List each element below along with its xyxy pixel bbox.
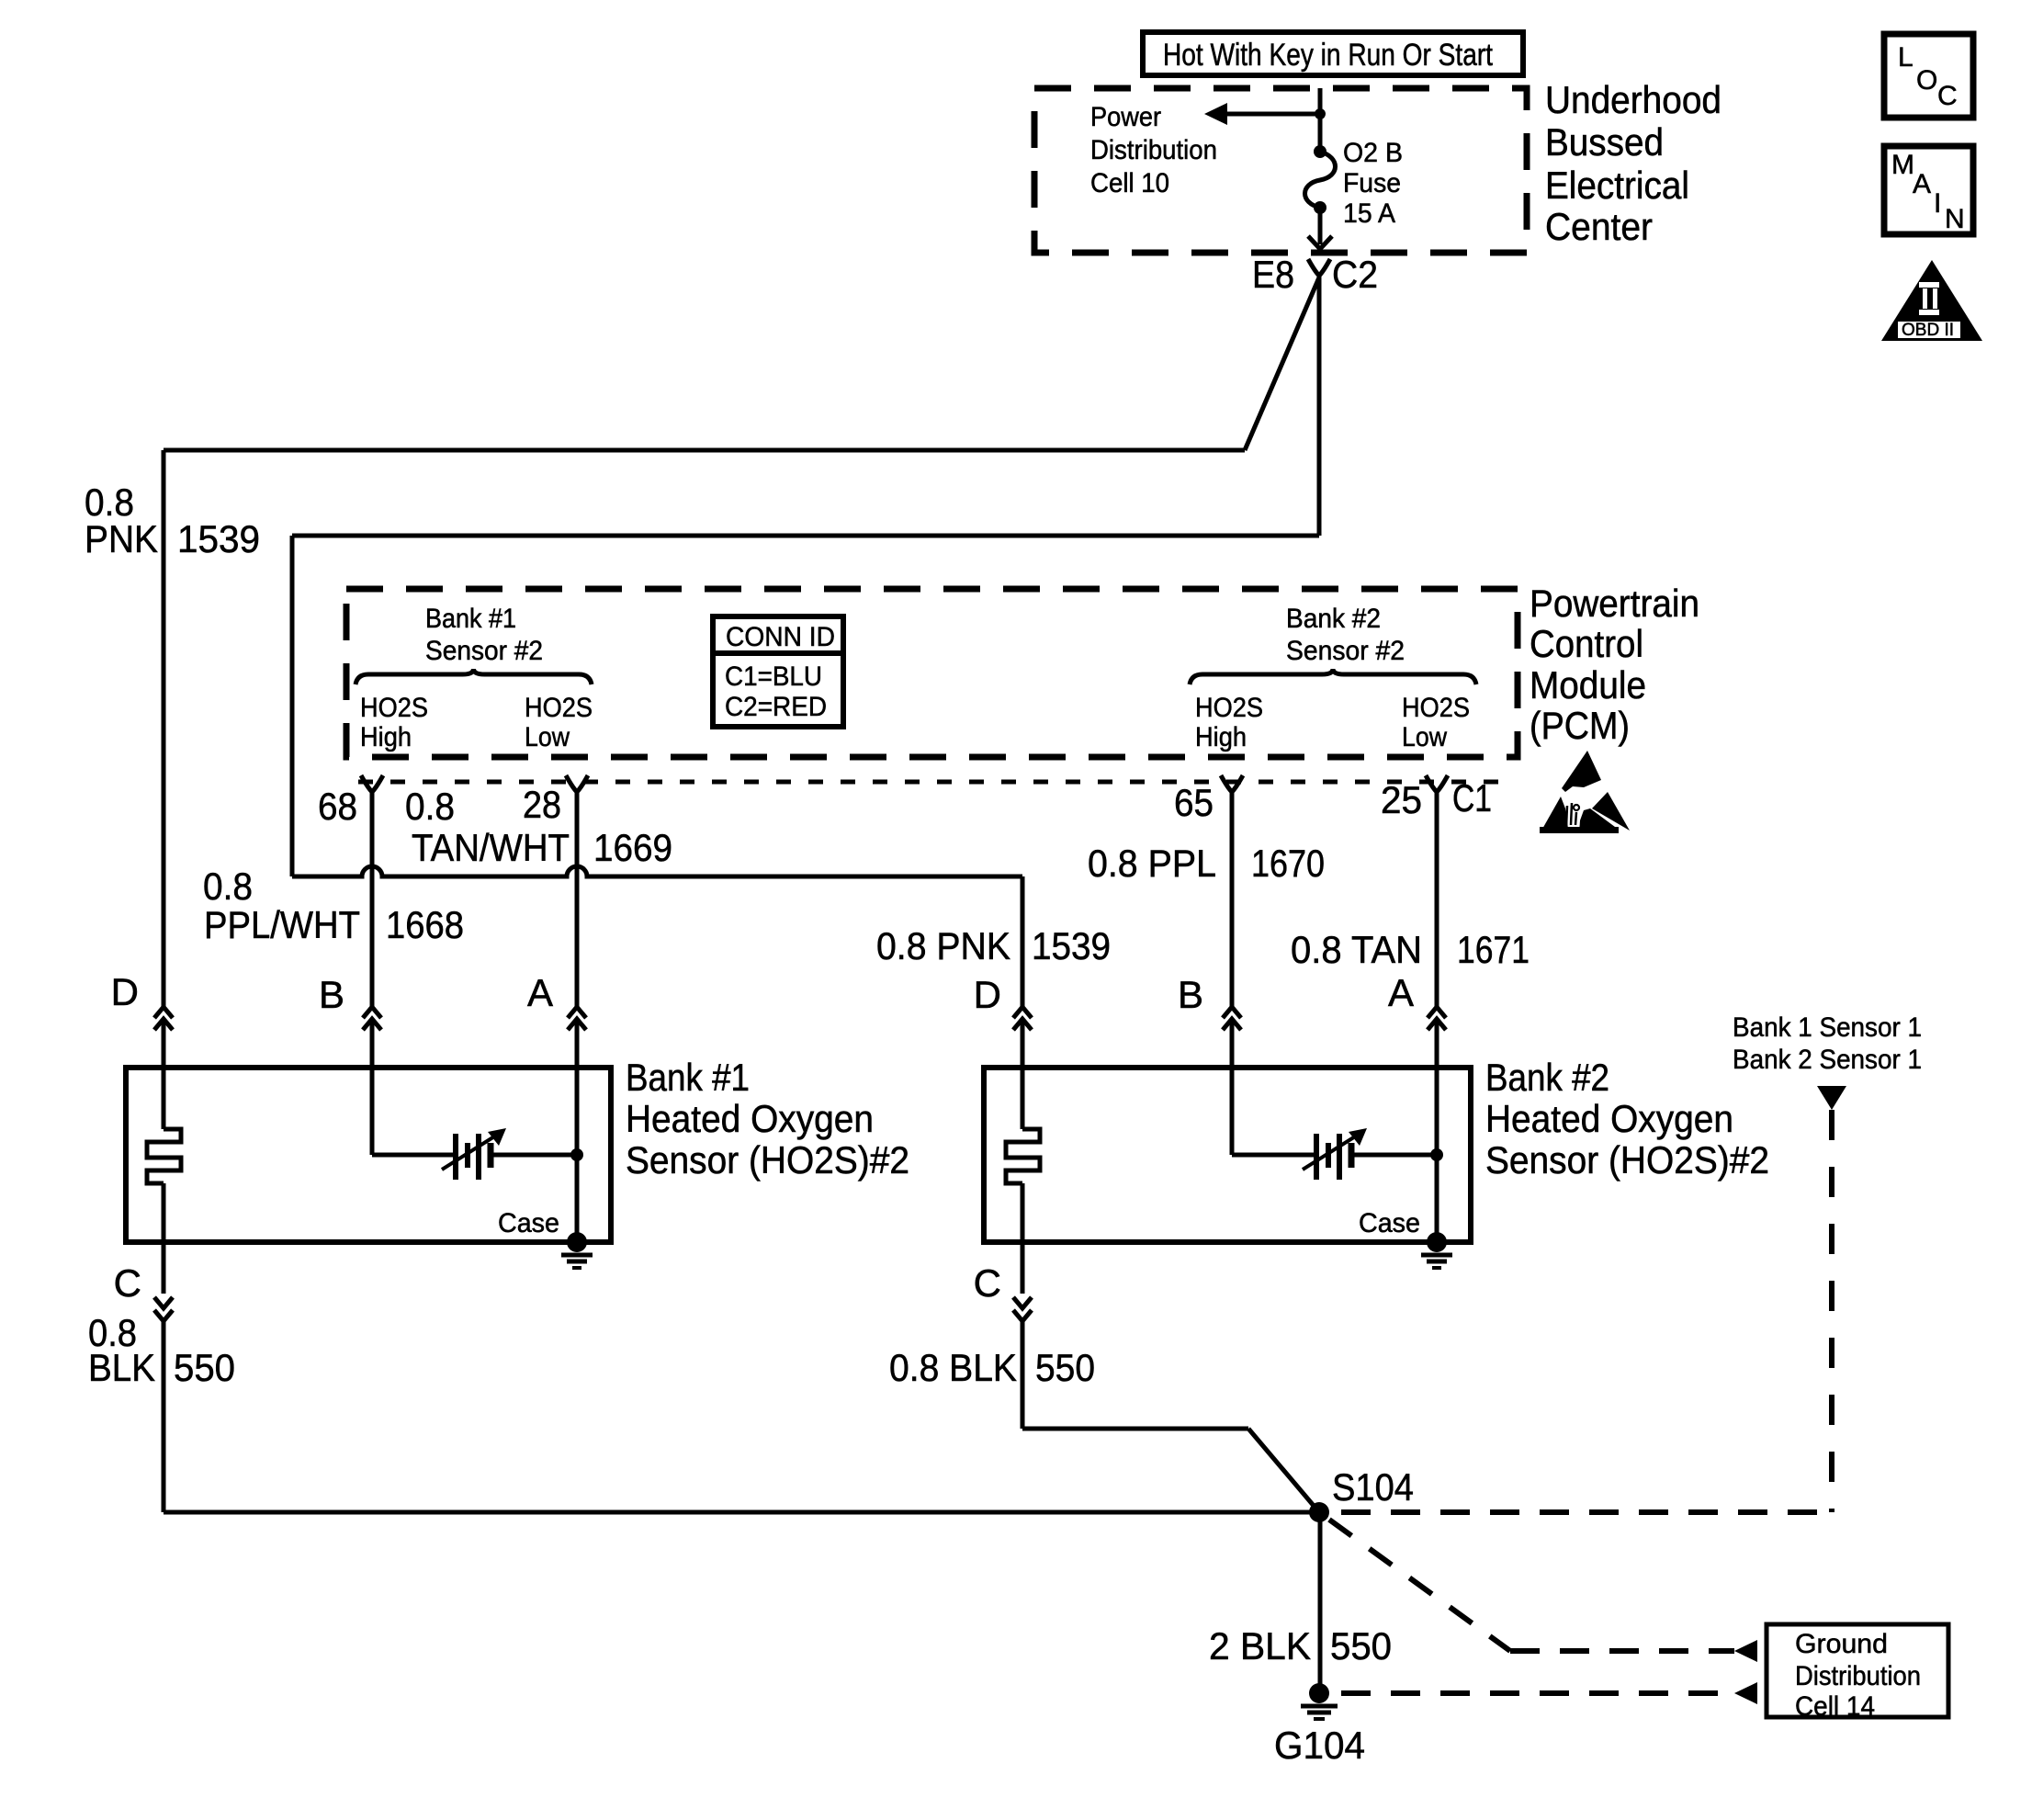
- svg-text:I: I: [1934, 188, 1941, 219]
- svg-text:68: 68: [318, 785, 357, 828]
- svg-text:D: D: [974, 973, 1001, 1016]
- svg-text:TAN/WHT: TAN/WHT: [412, 826, 570, 869]
- svg-text:G104: G104: [1274, 1724, 1365, 1767]
- svg-text:1671: 1671: [1457, 928, 1530, 971]
- svg-text:High: High: [1195, 722, 1247, 752]
- svg-text:Sensor #2: Sensor #2: [425, 636, 543, 666]
- svg-text:(PCM): (PCM): [1530, 704, 1630, 747]
- svg-text:Bank #1: Bank #1: [425, 604, 516, 634]
- svg-text:Bussed: Bussed: [1545, 120, 1664, 164]
- svg-text:2 BLK: 2 BLK: [1209, 1624, 1311, 1667]
- svg-text:PPL/WHT: PPL/WHT: [204, 903, 360, 946]
- svg-text:BLK: BLK: [88, 1346, 155, 1389]
- svg-text:HO2S: HO2S: [525, 693, 593, 723]
- svg-text:550: 550: [1330, 1624, 1392, 1667]
- svg-text:N: N: [1945, 204, 1965, 234]
- svg-text:Bank #2: Bank #2: [1485, 1056, 1609, 1099]
- svg-text:1670: 1670: [1251, 842, 1325, 885]
- svg-text:A: A: [1388, 971, 1414, 1014]
- svg-text:65: 65: [1174, 781, 1214, 824]
- svg-text:1669: 1669: [593, 826, 672, 869]
- svg-text:Hot With Key in Run Or Start: Hot With Key in Run Or Start: [1163, 38, 1493, 73]
- svg-text:HO2S: HO2S: [360, 693, 428, 723]
- svg-text:0.8 PPL: 0.8 PPL: [1088, 842, 1216, 885]
- svg-text:C1: C1: [1452, 776, 1492, 820]
- svg-text:Case: Case: [498, 1208, 559, 1238]
- svg-text:L: L: [1898, 42, 1913, 73]
- svg-text:Bank #1: Bank #1: [626, 1056, 750, 1099]
- svg-text:High: High: [360, 722, 412, 752]
- svg-text:28: 28: [523, 783, 561, 826]
- svg-text:PNK: PNK: [85, 517, 158, 560]
- svg-text:A: A: [1913, 169, 1931, 199]
- svg-text:Bank #2: Bank #2: [1286, 604, 1381, 634]
- svg-text:Powertrain: Powertrain: [1530, 582, 1699, 625]
- svg-text:C: C: [1937, 81, 1958, 111]
- svg-text:B: B: [319, 973, 344, 1016]
- svg-text:Sensor #2: Sensor #2: [1286, 636, 1405, 666]
- svg-text:0.8: 0.8: [203, 865, 253, 908]
- svg-text:15 A: 15 A: [1343, 198, 1395, 229]
- svg-text:Control: Control: [1530, 622, 1643, 665]
- svg-text:Low: Low: [1402, 722, 1447, 752]
- svg-text:1668: 1668: [386, 903, 464, 946]
- svg-text:S104: S104: [1332, 1465, 1414, 1509]
- svg-text:Sensor (HO2S)#2: Sensor (HO2S)#2: [626, 1138, 909, 1181]
- svg-text:Sensor (HO2S)#2: Sensor (HO2S)#2: [1485, 1138, 1769, 1181]
- svg-text:Fuse: Fuse: [1343, 168, 1401, 198]
- svg-text:0.8 BLK: 0.8 BLK: [889, 1346, 1017, 1389]
- svg-text:Cell 14: Cell 14: [1795, 1691, 1875, 1722]
- svg-text:O: O: [1916, 65, 1937, 96]
- svg-text:OBD II: OBD II: [1902, 321, 1954, 340]
- svg-text:Low: Low: [525, 722, 570, 752]
- svg-text:Underhood: Underhood: [1545, 78, 1722, 121]
- svg-text:CONN ID: CONN ID: [726, 622, 835, 652]
- svg-text:0.8 TAN: 0.8 TAN: [1291, 928, 1422, 971]
- svg-text:Electrical: Electrical: [1545, 164, 1689, 207]
- svg-text:B: B: [1178, 973, 1203, 1016]
- svg-text:Heated Oxygen: Heated Oxygen: [1485, 1097, 1733, 1140]
- svg-text:25: 25: [1381, 778, 1422, 821]
- svg-text:Cell 10: Cell 10: [1090, 168, 1169, 198]
- svg-text:550: 550: [1035, 1346, 1095, 1389]
- svg-text:Distribution: Distribution: [1090, 135, 1217, 165]
- svg-text:Distribution: Distribution: [1795, 1661, 1921, 1691]
- svg-text:HO2S: HO2S: [1195, 693, 1263, 723]
- svg-text:D: D: [111, 970, 139, 1013]
- svg-text:C2=RED: C2=RED: [725, 692, 827, 722]
- svg-text:Bank 2 Sensor 1: Bank 2 Sensor 1: [1733, 1045, 1922, 1075]
- svg-text:HO2S: HO2S: [1402, 693, 1470, 723]
- svg-text:1539: 1539: [177, 517, 260, 560]
- svg-text:Bank 1 Sensor 1: Bank 1 Sensor 1: [1733, 1012, 1922, 1043]
- svg-text:C1=BLU: C1=BLU: [725, 661, 822, 692]
- svg-text:Case: Case: [1359, 1208, 1420, 1238]
- svg-text:O2 B: O2 B: [1343, 138, 1403, 168]
- svg-text:Heated Oxygen: Heated Oxygen: [626, 1097, 874, 1140]
- svg-text:Center: Center: [1545, 205, 1653, 248]
- svg-text:Module: Module: [1530, 663, 1646, 707]
- svg-text:C2: C2: [1332, 253, 1378, 296]
- svg-text:A: A: [527, 971, 553, 1014]
- svg-text:1539: 1539: [1032, 924, 1111, 967]
- svg-text:550: 550: [174, 1346, 235, 1389]
- svg-text:Power: Power: [1090, 102, 1161, 132]
- svg-text:Ground: Ground: [1795, 1629, 1888, 1659]
- svg-text:C: C: [114, 1261, 141, 1305]
- svg-text:0.8 PNK: 0.8 PNK: [876, 924, 1010, 967]
- svg-text:0.8: 0.8: [405, 785, 455, 828]
- svg-text:C: C: [974, 1261, 1001, 1305]
- svg-text:M: M: [1891, 150, 1914, 180]
- svg-text:E8: E8: [1252, 253, 1294, 296]
